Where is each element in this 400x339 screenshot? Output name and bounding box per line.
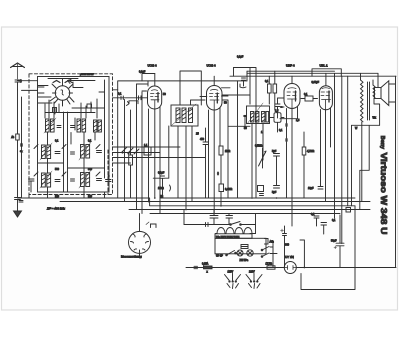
wire rail to box	[22, 89, 38, 91]
wire V3 top	[213, 76, 215, 85]
wire antenna to box	[18, 80, 38, 82]
capacitor dot rail2	[20, 143, 23, 147]
mixer tube V1 UCH4 (octode)	[50, 81, 74, 107]
junction dots	[154, 197, 305, 268]
switch lever	[227, 251, 235, 256]
resistor R7	[258, 186, 264, 192]
speaker	[375, 73, 396, 267]
wire V4 left caps	[278, 98, 285, 104]
wire V5 top	[325, 73, 327, 85]
mains connector mark	[194, 266, 198, 268]
svg-text:Virtuoso W 348 U: Virtuoso W 348 U	[379, 153, 389, 235]
dial lamp 2	[247, 250, 253, 256]
tube V4 anode stroke	[295, 91, 297, 101]
wires from buses down	[214, 210, 273, 248]
cap 0,1 b	[321, 223, 327, 235]
trimmer C2	[55, 180, 60, 182]
transformer bottom wires	[352, 125, 380, 209]
svg-text:0,05µF: 0,05µF	[312, 81, 320, 84]
capacitor grid V2	[139, 96, 142, 100]
wire over V5	[312, 69, 341, 76]
cap on bus	[242, 78, 246, 86]
capacitor dots V4	[285, 123, 287, 127]
mains wire	[186, 267, 396, 269]
capacitor C dot	[217, 172, 219, 176]
measuring socket	[129, 222, 157, 253]
trimmer C1	[29, 179, 35, 192]
wire v237	[237, 81, 239, 198]
coupling C/R between V4 V5	[301, 93, 318, 101]
svg-text:0,1µF: 0,1µF	[237, 56, 244, 59]
voltage selector group 2	[246, 274, 262, 289]
capacitor 470pF	[203, 128, 208, 198]
svg-text:Messanordnung: Messanordnung	[121, 255, 142, 259]
wire UY anode	[300, 240, 304, 268]
antenna coupling capacitor	[15, 79, 22, 90]
coil L7	[79, 170, 91, 188]
wires band area horizontals	[113, 147, 206, 163]
svg-text:kΩ: kΩ	[160, 195, 163, 198]
svg-text:50µF: 50µF	[331, 240, 337, 243]
trimmer C3	[97, 179, 102, 181]
switch top	[184, 222, 256, 225]
wires V3 bottom	[209, 108, 221, 214]
svg-text:120: 120	[88, 195, 93, 198]
svg-text:5µF: 5µF	[272, 150, 277, 153]
IF transformer T2	[171, 104, 198, 126]
svg-text:ZF = 468 kHz: ZF = 468 kHz	[46, 206, 66, 210]
lamp assembly box	[215, 238, 266, 254]
svg-text:0,1µF: 0,1µF	[139, 71, 146, 74]
antenna	[11, 63, 25, 79]
misc connecting wires left bottom	[29, 192, 105, 198]
trimmer C4	[106, 180, 112, 182]
solid tuner inner box	[38, 77, 110, 193]
tube V2 anode stroke	[157, 93, 159, 103]
capacitor 10uF b	[318, 187, 323, 190]
dashed inner divider	[107, 150, 109, 195]
wire left rail	[17, 90, 19, 197]
capacitor left bottom	[15, 198, 24, 203]
coupling cap mid	[153, 126, 169, 198]
voltage selector group 1	[225, 274, 241, 289]
wires V2 bottom	[149, 107, 161, 214]
capacitor 5uF b	[274, 186, 280, 189]
wires V4 bottom	[280, 107, 298, 226]
wire left rail 2	[21, 97, 23, 198]
capacitor grid line	[121, 96, 123, 100]
wire v228	[227, 104, 229, 198]
tube V3 anode stroke	[216, 93, 218, 103]
svg-text:5µF: 5µF	[272, 191, 277, 194]
coil L3	[94, 120, 102, 132]
wire v142	[141, 92, 143, 214]
wire grid line y97	[113, 97, 148, 99]
capacitor 0,05	[277, 108, 279, 132]
resistor R8	[302, 147, 306, 155]
small component on bus	[346, 208, 351, 213]
svg-text:UCH 4: UCH 4	[207, 64, 216, 68]
tube V2 UCH4	[148, 86, 162, 109]
svg-text:0,15A: 0,15A	[202, 263, 209, 266]
wire down to switch	[183, 210, 185, 225]
avc box and arrow	[127, 101, 139, 106]
trimmer C6	[97, 151, 102, 153]
resistor small a	[268, 84, 272, 93]
svg-text:0,5MΩ: 0,5MΩ	[255, 145, 262, 148]
tube V6 UY1N rectifier	[284, 262, 296, 274]
wire tube3 to T3	[222, 100, 228, 104]
wire V4 top	[291, 76, 293, 83]
wire 263 down	[262, 150, 265, 160]
ground	[14, 200, 22, 217]
resistor on rail	[16, 134, 20, 140]
wires T3	[222, 95, 284, 198]
svg-text:A0h: A0h	[270, 241, 275, 244]
inner divider wires	[64, 112, 68, 192]
wire v130	[130, 110, 132, 198]
wires coil columns	[48, 80, 105, 192]
svg-text:500: 500	[88, 168, 93, 171]
bottom right loop	[301, 206, 355, 290]
wire box to V2 path	[118, 74, 155, 199]
wire V2 top	[154, 74, 156, 87]
field coil	[373, 85, 375, 98]
IF transformer T3	[247, 103, 270, 124]
electrolytic 50uF	[331, 215, 344, 268]
top bus wires	[234, 68, 257, 199]
resistor R1	[129, 155, 133, 165]
tube V3 UCH4	[207, 86, 223, 111]
wire mixer top	[48, 79, 78, 86]
capacitor 10uF	[260, 194, 264, 196]
tube V5 UBL1	[319, 86, 332, 110]
component box 1,1/50	[144, 147, 151, 155]
svg-text:10µF: 10µF	[308, 187, 314, 190]
tube V4 UBF4	[284, 84, 300, 109]
capacitor 5uF a	[274, 154, 280, 186]
coil L1	[44, 118, 56, 133]
switch contacts right	[262, 247, 269, 257]
coil L6	[40, 171, 52, 188]
svg-text:120: 120	[55, 195, 60, 198]
wires inside box	[38, 82, 105, 168]
bracket A	[265, 239, 269, 245]
wires V5 bottom	[321, 108, 331, 202]
svg-text:UBF 4: UBF 4	[286, 64, 295, 68]
dashed tuner box	[29, 74, 113, 195]
heater dropper assembly	[215, 225, 256, 239]
capacitor dot T3	[243, 115, 247, 117]
extra horizontals upper mid	[113, 84, 148, 91]
resistor R5	[219, 146, 223, 155]
svg-text:UCH 4: UCH 4	[148, 64, 157, 68]
brand text	[379, 136, 389, 235]
wire top V2 T2	[147, 81, 149, 86]
bandswitch contacts	[122, 147, 139, 154]
wire v136	[136, 84, 138, 210]
resistor 17,5	[267, 266, 275, 269]
detector load box	[270, 110, 285, 123]
svg-text:UP 1P: UP 1P	[216, 255, 223, 258]
output transformer	[361, 73, 370, 201]
cap near V4 grid	[275, 104, 280, 118]
svg-text:500: 500	[55, 168, 60, 171]
volume pot	[259, 148, 267, 168]
bus wires middle	[18, 198, 356, 206]
dial lamp 1	[237, 250, 243, 256]
svg-text:470: 470	[200, 138, 205, 141]
wires T2 bottom	[178, 126, 192, 210]
svg-text:µW KW MW LW: µW KW MW LW	[80, 74, 94, 76]
svg-text:4,7MΩ: 4,7MΩ	[307, 150, 314, 153]
coil L2	[77, 119, 86, 132]
tube V5 anode stroke	[328, 91, 330, 102]
svg-text:17,5Ω: 17,5Ω	[266, 263, 273, 266]
caps on heater bus	[210, 216, 218, 225]
svg-text:10kΩ: 10kΩ	[158, 187, 164, 190]
resistor R6	[219, 184, 224, 192]
trimmer C5	[55, 152, 60, 154]
wire T2 tops	[180, 71, 205, 105]
capacitor plus	[283, 226, 287, 268]
svg-text:UY 1N: UY 1N	[285, 255, 294, 259]
svg-text:Beny: Beny	[379, 136, 385, 149]
right rail wires	[335, 73, 352, 243]
coil L5	[79, 142, 91, 160]
svg-text:ZW 1Pa: ZW 1Pa	[240, 259, 249, 262]
resistor small b	[273, 84, 277, 93]
wire v124	[124, 100, 126, 202]
coil L4	[40, 143, 52, 160]
capacitor line cap	[206, 223, 209, 227]
svg-text:0,4MΩ: 0,4MΩ	[225, 188, 232, 191]
wires mixer to coils	[45, 99, 97, 118]
svg-text:300: 300	[285, 244, 290, 247]
svg-text:UBL 1: UBL 1	[320, 64, 329, 68]
fuse	[202, 263, 212, 274]
cap 0,1 a	[314, 216, 319, 226]
svg-text:0,1µF: 0,1µF	[158, 172, 165, 175]
grid wire with arrow	[68, 80, 96, 84]
